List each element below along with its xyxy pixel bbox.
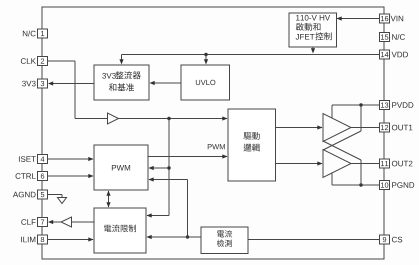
junction dot VDD rail / UVLO branch: [204, 53, 207, 56]
wire CTRL pin6 to PWM: [48, 175, 94, 177]
block current limit: [94, 208, 146, 253]
inverter (CLF) triangle pointing left: [61, 217, 72, 227]
buffer (clock) triangle: [108, 113, 119, 124]
wire PWM output to drive logic: [148, 156, 227, 158]
wire driver 1 output to pin 12 OUT1: [351, 127, 380, 129]
junction dot PVDD rail: [359, 103, 362, 106]
wire VDD branch into UVLO: [205, 55, 207, 64]
wire buffer output to drive logic: [119, 118, 228, 120]
wire drive logic to driver 2: [275, 163, 322, 165]
wire PVDD rail pin13 to drivers: [332, 104, 380, 106]
pin 6 CTRL: [38, 172, 48, 181]
pin 8 ILIM: [38, 235, 48, 244]
IC outline box: [42, 7, 384, 259]
wire clock branch down to PWM and current limit: [168, 119, 170, 216]
ground symbol AGND: [58, 198, 67, 204]
block drive logic: [228, 109, 276, 181]
block UVLO: [181, 65, 230, 100]
pin 2 CLK: [38, 57, 48, 66]
pin 14 VDD: [380, 50, 390, 59]
block PWM: [94, 145, 148, 190]
wire PVDD cross branch to driver 2: [360, 105, 362, 131]
junction dot clock line: [167, 117, 170, 120]
wire HV block output down to VDD rail: [312, 47, 314, 52]
pin 3 3V3: [38, 79, 48, 88]
pin 9 CS: [380, 235, 390, 244]
pin 16 VIN: [380, 14, 390, 23]
pin 12 OUT1: [380, 123, 390, 132]
wire drive logic to driver 1: [275, 127, 322, 129]
wire current limit to CLF inverter: [72, 221, 95, 223]
wire UVLO to 3V3 regulator: [151, 82, 182, 84]
wire ISET pin4 to PWM: [48, 158, 94, 160]
wire CS pin9 to current sense block: [248, 239, 380, 241]
wire current sense to current limit: [147, 236, 201, 238]
output driver 2 triangle: [323, 150, 351, 178]
wire CLK pin2 to buffer: [48, 60, 76, 62]
wire 3V3 regulator output to pin 3: [49, 83, 94, 85]
pin 10 PGND: [380, 181, 390, 190]
wire VDD rail: [122, 54, 380, 56]
wire CLF inverter output to pin 7: [49, 221, 61, 223]
pin 13 PVDD: [380, 101, 390, 110]
pin 1 N/C: [38, 29, 48, 38]
label PWM on wire: [208, 144, 212, 149]
block current sense: [201, 227, 248, 254]
block U-3V3 regulator and reference: [94, 65, 149, 100]
junction dot current sense line: [186, 235, 189, 238]
pin 5 AGND: [38, 190, 48, 199]
output driver 1 triangle: [323, 114, 351, 142]
pin 11 OUT2: [380, 159, 390, 168]
wire PGND rail pin10 to drivers: [332, 184, 380, 186]
wire current sense feedback to PWM: [149, 179, 188, 181]
junction dot clock branch / PWM input: [167, 166, 170, 169]
wire ILIM pin8 to current limit: [48, 239, 94, 241]
wire AGND pin5 stub: [48, 194, 63, 196]
pin 15 N/C: [380, 33, 390, 42]
wire VIN pin16 to HV startup block: [337, 18, 380, 20]
wire driver 2 output to pin 11 OUT2: [351, 163, 380, 165]
block HV startup and JFET control: [289, 13, 337, 47]
wire PWM to current-limit double arrow: [108, 191, 110, 207]
pin 7 CLF: [38, 218, 48, 227]
junction dot PGND rail: [359, 183, 362, 186]
pin 4 ISET: [38, 155, 48, 164]
wire PGND cross branch to driver 1: [360, 160, 362, 185]
